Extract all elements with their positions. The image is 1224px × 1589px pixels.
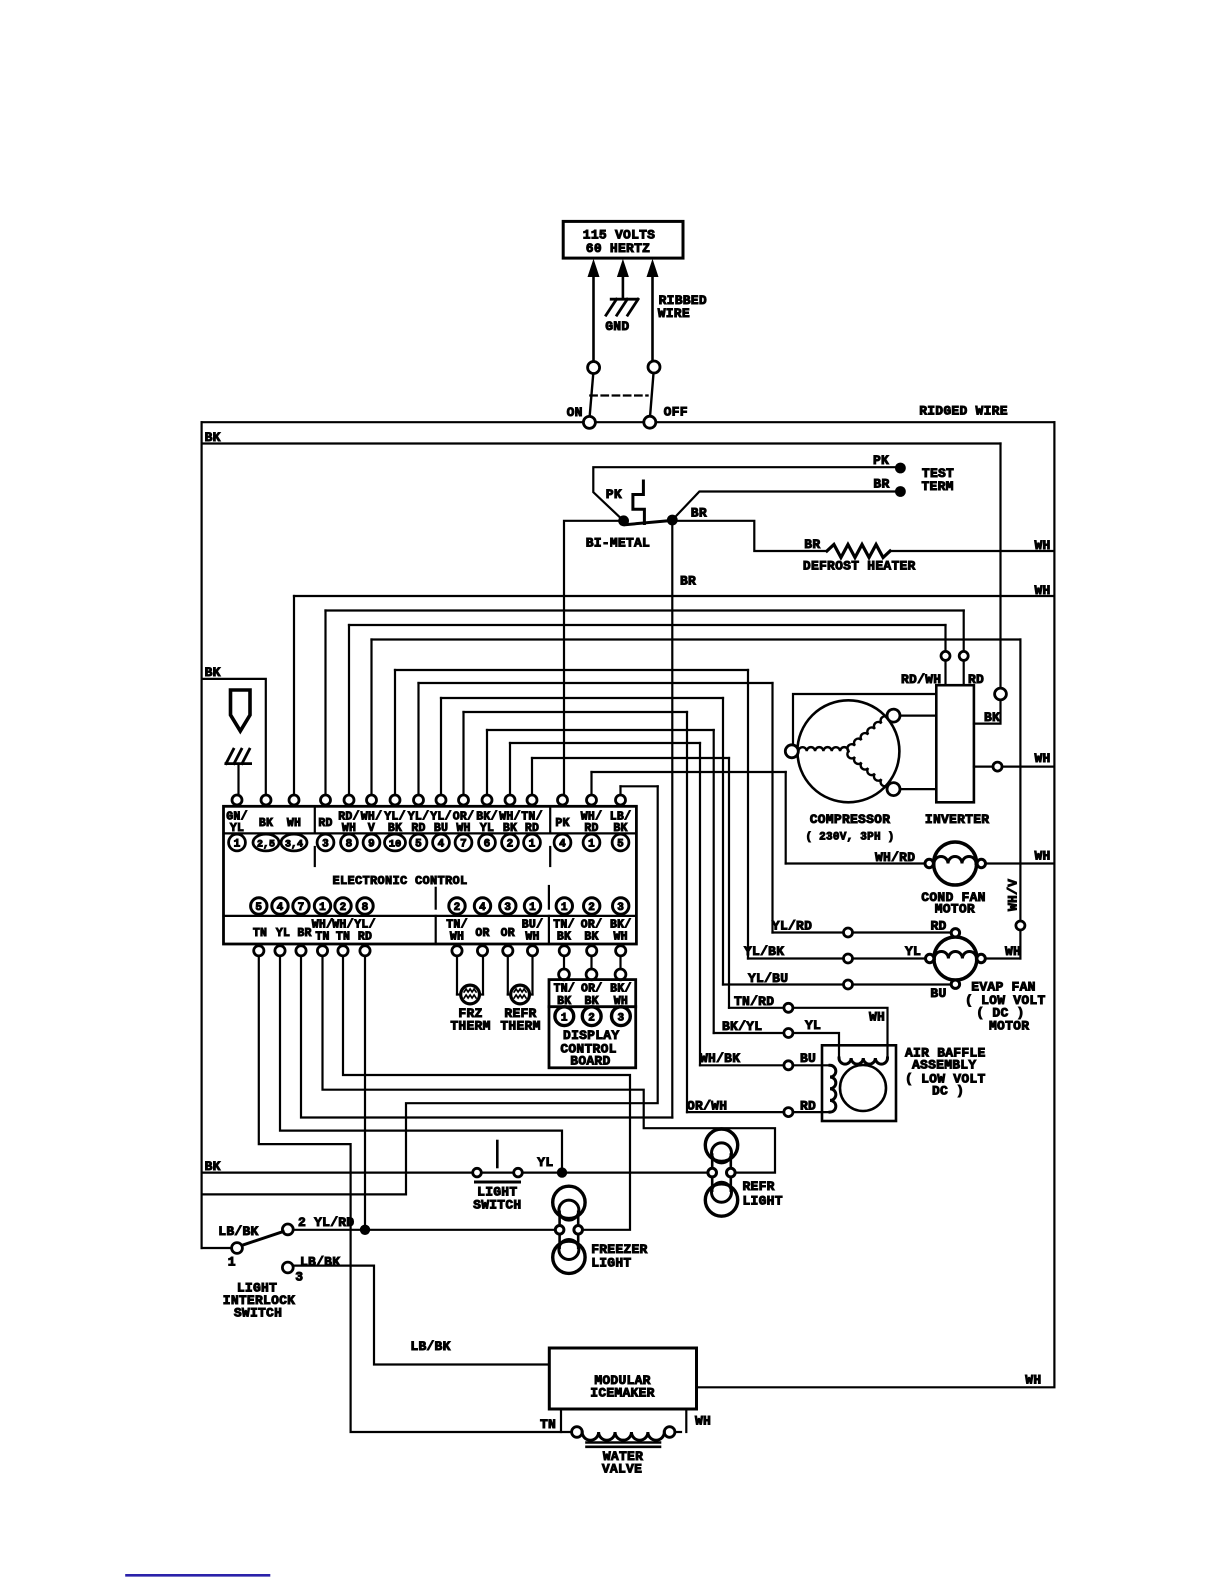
- svg-text:BR: BR: [680, 573, 696, 588]
- svg-text:GND: GND: [605, 319, 629, 334]
- svg-text:BR: BR: [297, 927, 311, 940]
- svg-text:WH: WH: [695, 1414, 711, 1429]
- svg-text:YL: YL: [905, 944, 921, 959]
- svg-text:7: 7: [460, 839, 467, 851]
- svg-text:PK: PK: [606, 487, 622, 502]
- svg-text:5: 5: [255, 902, 262, 914]
- svg-text:3: 3: [504, 902, 511, 914]
- svg-text:VALVE: VALVE: [602, 1462, 642, 1477]
- svg-text:COMPRESSOR: COMPRESSOR: [810, 812, 891, 827]
- svg-text:LB/BK: LB/BK: [410, 1339, 450, 1354]
- svg-text:OR: OR: [501, 927, 515, 940]
- svg-text:8: 8: [346, 839, 353, 851]
- svg-text:YL/RD: YL/RD: [772, 919, 812, 934]
- svg-text:TN: TN: [540, 1417, 556, 1432]
- svg-text:TN/RD: TN/RD: [734, 994, 774, 1009]
- svg-text:SWITCH: SWITCH: [473, 1198, 521, 1213]
- svg-text:ASSEMBLY: ASSEMBLY: [912, 1058, 976, 1073]
- svg-text:TN: TN: [336, 931, 350, 944]
- svg-text:ICEMAKER: ICEMAKER: [590, 1386, 654, 1401]
- svg-text:LB/BK: LB/BK: [218, 1224, 258, 1239]
- svg-text:3: 3: [617, 902, 624, 914]
- svg-text:WH: WH: [1034, 538, 1050, 553]
- svg-text:2: 2: [454, 902, 461, 914]
- svg-text:YL/BK: YL/BK: [744, 944, 784, 959]
- svg-text:OFF: OFF: [664, 405, 688, 420]
- svg-text:SWITCH: SWITCH: [234, 1306, 282, 1321]
- svg-text:BK: BK: [205, 430, 221, 445]
- svg-text:YL: YL: [537, 1155, 553, 1170]
- svg-text:MOTOR: MOTOR: [935, 902, 975, 917]
- svg-text:1: 1: [234, 839, 241, 851]
- svg-text:2: 2: [340, 902, 347, 914]
- svg-text:REFR: REFR: [743, 1179, 775, 1194]
- svg-text:BK/: BK/: [610, 982, 631, 995]
- svg-text:3: 3: [295, 1270, 303, 1285]
- svg-text:PK: PK: [873, 453, 889, 468]
- svg-text:INVERTER: INVERTER: [925, 812, 989, 827]
- svg-text:6: 6: [484, 839, 491, 851]
- svg-text:WH: WH: [450, 931, 464, 944]
- svg-text:OR: OR: [475, 927, 489, 940]
- svg-text:WH: WH: [1034, 751, 1050, 766]
- svg-text:WH: WH: [1034, 849, 1050, 864]
- svg-text:BI-METAL: BI-METAL: [586, 536, 650, 551]
- svg-text:RD: RD: [800, 1099, 816, 1114]
- svg-text:1: 1: [561, 902, 568, 914]
- svg-text:3: 3: [322, 839, 329, 851]
- svg-text:YL: YL: [276, 927, 290, 940]
- svg-text:10: 10: [389, 839, 402, 851]
- svg-text:BR: BR: [691, 506, 707, 521]
- svg-text:WH: WH: [869, 1010, 885, 1025]
- svg-text:YL/BU: YL/BU: [748, 971, 788, 986]
- svg-text:BK: BK: [557, 931, 571, 944]
- svg-text:1: 1: [529, 839, 536, 851]
- svg-text:BK/YL: BK/YL: [722, 1019, 762, 1034]
- svg-text:1: 1: [319, 902, 326, 914]
- svg-text:BU: BU: [930, 986, 946, 1001]
- svg-text:BU: BU: [800, 1051, 816, 1066]
- svg-text:ON: ON: [567, 405, 583, 420]
- svg-text:LB/BK: LB/BK: [300, 1255, 340, 1270]
- svg-text:BK: BK: [584, 931, 598, 944]
- svg-text:4: 4: [277, 902, 284, 914]
- svg-text:5: 5: [415, 839, 422, 851]
- svg-text:9: 9: [368, 839, 375, 851]
- svg-text:60 HERTZ: 60 HERTZ: [586, 241, 650, 256]
- svg-text:TN/: TN/: [554, 982, 575, 995]
- svg-text:2 YL/RD: 2 YL/RD: [298, 1215, 354, 1230]
- svg-text:2,5: 2,5: [257, 840, 275, 851]
- svg-text:WH: WH: [1025, 1372, 1041, 1387]
- svg-text:1: 1: [561, 1012, 568, 1024]
- svg-text:PK: PK: [555, 817, 569, 830]
- svg-text:WH/BK: WH/BK: [700, 1051, 740, 1066]
- svg-text:YL: YL: [805, 1018, 821, 1033]
- svg-text:RD: RD: [358, 931, 372, 944]
- svg-text:WH: WH: [1005, 944, 1021, 959]
- svg-text:OR/WH: OR/WH: [687, 1099, 727, 1114]
- svg-text:MOTOR: MOTOR: [989, 1019, 1029, 1034]
- svg-text:4: 4: [479, 902, 486, 914]
- svg-text:( 230V, 3PH ): ( 230V, 3PH ): [805, 832, 894, 844]
- svg-text:DEFROST HEATER: DEFROST HEATER: [803, 559, 916, 574]
- svg-text:1: 1: [588, 839, 595, 851]
- svg-text:1: 1: [529, 902, 536, 914]
- svg-text:DC ): DC ): [932, 1084, 964, 1099]
- svg-text:2: 2: [588, 902, 595, 914]
- svg-text:WIRE: WIRE: [658, 306, 690, 321]
- svg-text:OR/: OR/: [581, 982, 602, 995]
- svg-text:2: 2: [507, 839, 514, 851]
- svg-text:8: 8: [362, 902, 369, 914]
- svg-text:BK: BK: [205, 665, 221, 680]
- svg-text:WH: WH: [287, 817, 301, 830]
- svg-text:RD: RD: [318, 817, 332, 830]
- svg-text:TN: TN: [253, 927, 267, 940]
- svg-text:TN: TN: [315, 931, 329, 944]
- svg-text:4: 4: [559, 839, 566, 851]
- svg-text:2: 2: [588, 1012, 595, 1024]
- svg-text:4: 4: [438, 839, 445, 851]
- svg-text:BR: BR: [873, 477, 889, 492]
- svg-text:BK: BK: [205, 1159, 221, 1174]
- svg-text:LIGHT: LIGHT: [591, 1256, 631, 1271]
- svg-text:WH: WH: [614, 931, 628, 944]
- svg-text:BR: BR: [804, 537, 820, 552]
- svg-text:WH/V: WH/V: [1006, 879, 1021, 911]
- svg-text:3,4: 3,4: [285, 840, 303, 851]
- svg-text:WH: WH: [525, 931, 539, 944]
- svg-text:WH/RD: WH/RD: [875, 850, 915, 865]
- svg-text:BK: BK: [984, 710, 1000, 725]
- svg-text:7: 7: [298, 902, 305, 914]
- svg-text:THERM: THERM: [450, 1019, 490, 1034]
- svg-text:LIGHT: LIGHT: [743, 1194, 783, 1209]
- svg-text:RD: RD: [931, 919, 947, 934]
- svg-text:RIDGED WIRE: RIDGED WIRE: [919, 403, 1008, 418]
- svg-text:BK: BK: [259, 817, 273, 830]
- svg-text:TERM: TERM: [922, 479, 954, 494]
- svg-text:5: 5: [617, 839, 624, 851]
- svg-text:BOARD: BOARD: [570, 1054, 610, 1069]
- svg-text:THERM: THERM: [500, 1019, 540, 1034]
- svg-text:1: 1: [228, 1255, 236, 1270]
- svg-text:WH: WH: [1034, 583, 1050, 598]
- svg-text:3: 3: [617, 1012, 624, 1024]
- svg-text:ELECTRONIC CONTROL: ELECTRONIC CONTROL: [332, 874, 467, 888]
